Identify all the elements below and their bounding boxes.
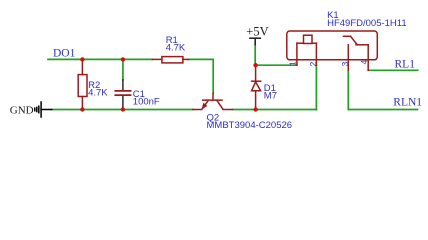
svg-text:3: 3 bbox=[340, 62, 350, 67]
resistor R1 bbox=[152, 57, 188, 63]
svg-text:2: 2 bbox=[308, 62, 318, 67]
svg-text:RL1: RL1 bbox=[395, 58, 416, 70]
svg-text:HF49FD/005-1H11: HF49FD/005-1H11 bbox=[327, 18, 407, 29]
svg-text:4.7K: 4.7K bbox=[166, 43, 186, 54]
junction dot rail/D1 bbox=[253, 107, 257, 111]
capacitor C1 bbox=[122, 80, 124, 108]
junction dot rail/R2 bbox=[80, 107, 84, 111]
svg-text:M7: M7 bbox=[264, 91, 277, 102]
transistor Q2 emitter arrow bbox=[202, 103, 208, 110]
svg-text:1: 1 bbox=[288, 61, 298, 66]
wire +5V to relay pin1 bbox=[255, 45, 297, 66]
svg-text:MMBT3904-C20526: MMBT3904-C20526 bbox=[207, 120, 293, 131]
junction dot +5V/D1 bbox=[253, 63, 257, 67]
ground bbox=[35, 102, 52, 117]
svg-text:+5V: +5V bbox=[246, 24, 268, 38]
diode D1 bbox=[252, 65, 261, 109]
relay K1 body bbox=[287, 31, 378, 60]
resistor R2 bbox=[78, 59, 87, 109]
wire C1 top bbox=[122, 59, 124, 79]
wire top right segment R1 to corner bbox=[188, 59, 213, 93]
wire RLN1 bbox=[348, 70, 417, 109]
svg-text:100nF: 100nF bbox=[133, 97, 160, 108]
relay K1 coil bbox=[297, 35, 317, 65]
svg-text:GND: GND bbox=[10, 104, 34, 116]
wire collector rail to D1 and relay pin2 bbox=[233, 65, 317, 109]
transistor Q2 bbox=[193, 93, 233, 109]
junction dot DO1/R2 bbox=[80, 57, 84, 61]
wire GND rail bbox=[52, 109, 193, 111]
relay K1 contact bbox=[344, 36, 369, 70]
svg-text:4.7K: 4.7K bbox=[88, 87, 108, 98]
svg-text:4: 4 bbox=[359, 60, 369, 65]
svg-text:RLN1: RLN1 bbox=[393, 96, 422, 108]
power +5V symbol bbox=[250, 38, 260, 44]
svg-text:DO1: DO1 bbox=[53, 47, 76, 59]
junction dot rail/C1 bbox=[121, 107, 125, 111]
wire RL1 bbox=[368, 69, 418, 71]
junction dot DO1/C1 bbox=[121, 57, 125, 61]
wire DO1 horizontal top bbox=[48, 58, 152, 60]
